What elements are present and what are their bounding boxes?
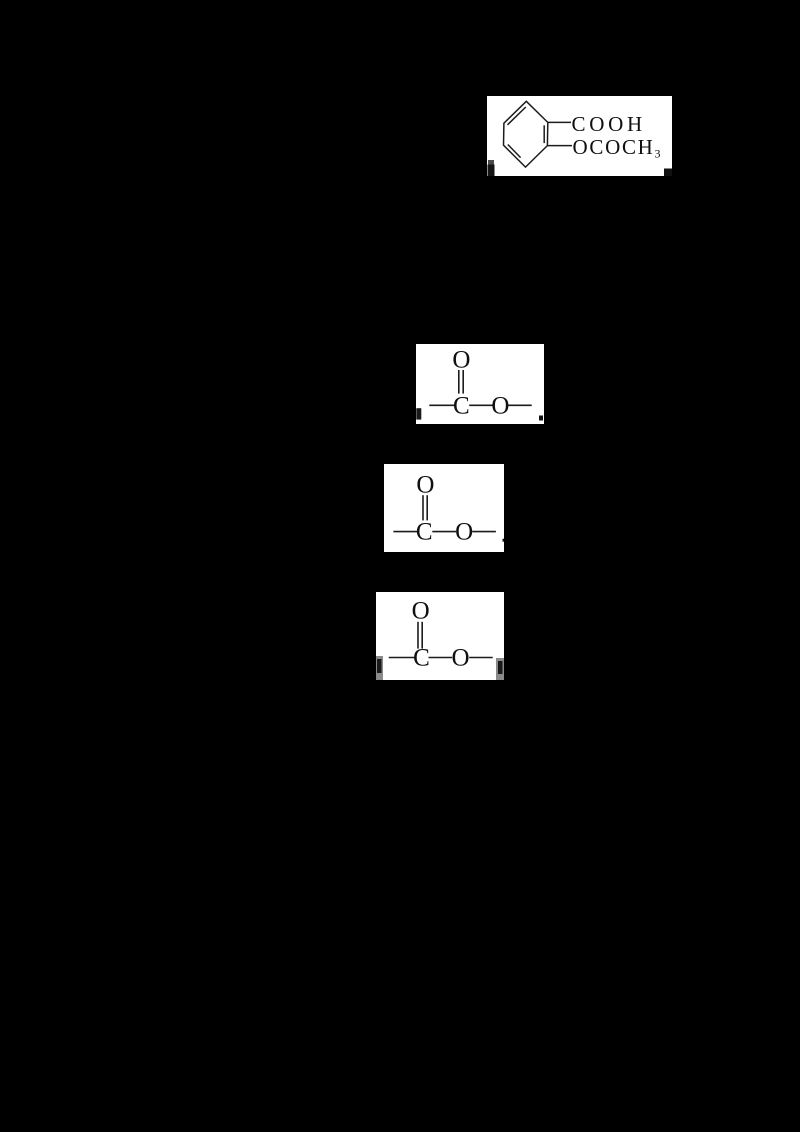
stray mark bottom-left bbox=[488, 160, 494, 165]
double bond C=O lines bbox=[458, 370, 460, 394]
bond line ring to COOH bbox=[548, 121, 571, 123]
double bond lower-left inner line bbox=[508, 145, 521, 158]
stray mark right edge bbox=[503, 539, 505, 542]
svg-text:COOH: COOH bbox=[572, 112, 646, 136]
ester group image box 4 bbox=[376, 592, 504, 680]
bond line ring to OCOCH3 bbox=[547, 145, 572, 147]
aspirin structure image box bbox=[487, 96, 672, 176]
svg-text:O: O bbox=[455, 519, 473, 546]
stray mark bottom-right bbox=[664, 169, 672, 177]
benzene ring hexagon bbox=[504, 101, 548, 167]
svg-text:C: C bbox=[416, 519, 433, 546]
bond line right of O bbox=[472, 531, 496, 533]
double bond C=O lines bbox=[417, 622, 419, 649]
svg-text:O: O bbox=[416, 472, 434, 499]
double bond C=O lines bbox=[422, 495, 424, 520]
bond line left of C bbox=[393, 531, 418, 533]
bond line left of C bbox=[429, 404, 454, 406]
bond line C to O bbox=[469, 404, 493, 406]
svg-text:O: O bbox=[451, 645, 469, 672]
ester group image box 2 bbox=[416, 344, 544, 424]
svg-text:OCOCH: OCOCH bbox=[573, 135, 655, 159]
stray grey blob bottom-left bbox=[376, 656, 383, 680]
stray mark bottom-left bbox=[416, 408, 421, 419]
svg-text:3: 3 bbox=[655, 147, 661, 161]
svg-text:O: O bbox=[452, 347, 470, 374]
bond line C to O bbox=[429, 657, 453, 659]
bond line right of O bbox=[469, 657, 493, 659]
bond line right of O bbox=[508, 404, 532, 406]
ester group image box 3 bbox=[384, 464, 504, 552]
double bond right inner line bbox=[543, 125, 545, 143]
stray grey blob bottom-right bbox=[496, 658, 504, 680]
stray mark bottom-right bbox=[539, 416, 543, 421]
svg-text:C: C bbox=[453, 392, 470, 419]
bond line C to O bbox=[432, 531, 456, 533]
bond line left of C bbox=[389, 657, 415, 659]
svg-text:O: O bbox=[491, 392, 509, 419]
svg-text:O: O bbox=[412, 598, 430, 625]
svg-text:C: C bbox=[413, 645, 430, 672]
double bond upper-left inner line bbox=[508, 107, 526, 125]
